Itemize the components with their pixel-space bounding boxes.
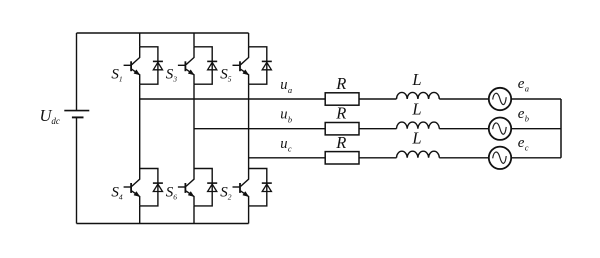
- wire leg 1 upper: rail to S1: [139, 33, 141, 47]
- wire phase c: source to neutral bus: [511, 157, 561, 159]
- resistor R (phase a): [325, 93, 359, 105]
- transistor S2: [233, 169, 249, 206]
- diode anti-parallel with S6: [194, 169, 217, 206]
- wire leg 1 middle: S1 emitter to S4 collector through phase node: [139, 84, 141, 168]
- inductor L (phase a): [397, 92, 440, 99]
- wire leg 1 lower: S4 to bottom rail: [139, 206, 141, 224]
- wire leg 3 lower: S2 to bottom rail: [248, 206, 250, 224]
- wire phase b: inductor to source: [439, 128, 489, 130]
- svg-text:S3: S3: [166, 67, 178, 84]
- AC source e_c: [489, 147, 511, 169]
- wire phase a: inductor to source: [439, 98, 489, 100]
- svg-text:ua: ua: [280, 77, 292, 95]
- transistor S3: [178, 47, 194, 84]
- diode anti-parallel with S2: [249, 169, 272, 206]
- svg-text:L: L: [411, 129, 421, 148]
- wire leg 3 middle: S5 emitter to S2 collector through phase node: [248, 84, 250, 168]
- svg-text:R: R: [335, 133, 346, 152]
- svg-text:Udc: Udc: [40, 106, 60, 126]
- inductor L (phase c): [397, 151, 440, 158]
- wire phase c: inductor to source: [439, 157, 489, 159]
- svg-text:uc: uc: [280, 136, 292, 154]
- svg-text:eb: eb: [518, 106, 529, 124]
- transistor S5: [233, 47, 249, 84]
- svg-text:L: L: [411, 70, 421, 89]
- wire phase a: source to neutral bus: [511, 98, 561, 100]
- svg-text:S4: S4: [111, 185, 123, 202]
- resistor R (phase b): [325, 123, 359, 135]
- diode anti-parallel with S1: [140, 47, 163, 84]
- svg-text:ea: ea: [518, 76, 529, 94]
- svg-text:S2: S2: [220, 185, 232, 202]
- svg-text:ec: ec: [518, 135, 529, 153]
- transistor S6: [178, 169, 194, 206]
- transistor S1: [124, 47, 140, 84]
- wire phase a: resistor to inductor: [359, 98, 397, 100]
- wire right neutral bus: [560, 99, 562, 158]
- wire phase b: source to neutral bus: [511, 128, 561, 130]
- AC source e_a: [489, 88, 511, 110]
- svg-text:S6: S6: [166, 185, 178, 202]
- resistor R (phase c): [325, 152, 359, 164]
- svg-text:S5: S5: [220, 67, 232, 84]
- wire left rail lower segment: [76, 118, 78, 224]
- svg-text:R: R: [335, 104, 346, 123]
- svg-text:ub: ub: [280, 107, 292, 125]
- svg-text:R: R: [335, 74, 346, 93]
- wire leg 3 upper: rail to S5: [248, 33, 250, 47]
- AC source e_b: [489, 118, 511, 140]
- wire top DC rail: [77, 32, 249, 34]
- wire left rail upper segment: [76, 33, 78, 110]
- wire bottom DC rail: [77, 223, 249, 225]
- wire phase b: inverter leg to resistor: [194, 128, 325, 130]
- inductor L (phase b): [397, 122, 440, 129]
- diode anti-parallel with S3: [194, 47, 217, 84]
- diode anti-parallel with S4: [140, 169, 163, 206]
- wire phase c: resistor to inductor: [359, 157, 397, 159]
- wire leg 2 lower: S6 to bottom rail: [193, 206, 195, 224]
- wire phase a: inverter leg to resistor: [140, 98, 326, 100]
- wire leg 2 upper: rail to S3: [193, 33, 195, 47]
- diode anti-parallel with S5: [249, 47, 272, 84]
- svg-text:S1: S1: [111, 67, 122, 84]
- transistor S4: [124, 169, 140, 206]
- battery U_dc: [64, 111, 89, 118]
- wire phase b: resistor to inductor: [359, 128, 397, 130]
- wire leg 2 middle: S3 emitter to S6 collector through phase node: [193, 84, 195, 168]
- svg-text:L: L: [411, 100, 421, 119]
- wire phase c: inverter leg to resistor: [249, 157, 326, 159]
